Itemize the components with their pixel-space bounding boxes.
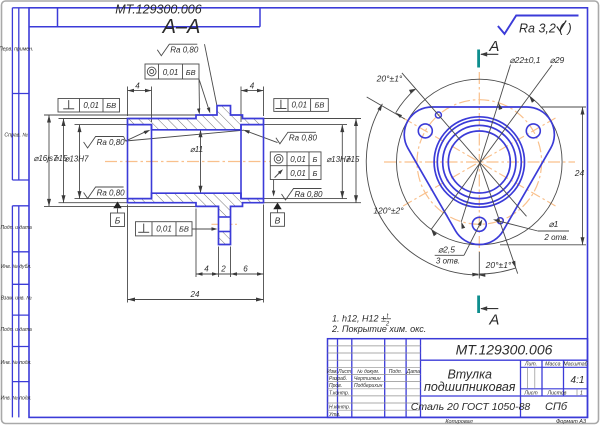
svg-text:А–А: А–А <box>162 16 201 38</box>
svg-text:⌀1: ⌀1 <box>549 219 559 229</box>
svg-text:Н.контр.: Н.контр. <box>329 405 350 411</box>
datum B left <box>111 202 125 227</box>
svg-text:МТ.129300.006: МТ.129300.006 <box>115 2 201 16</box>
technical notes <box>331 314 426 334</box>
svg-text:0,01: 0,01 <box>83 101 99 110</box>
title block row lines <box>328 346 578 410</box>
tolerance frame stack concentricity/runout 0,01 B right with leader <box>270 152 321 197</box>
general roughness Ra 3,2 <box>498 16 579 36</box>
right view centerline vertical <box>478 72 480 252</box>
svg-text:24: 24 <box>190 290 200 299</box>
svg-text:Справ. №: Справ. № <box>4 133 28 139</box>
svg-text:Пров.: Пров. <box>329 383 342 389</box>
datum V right <box>271 203 285 227</box>
svg-text:4: 4 <box>204 264 209 273</box>
tolerance frame concentricity 0,01 BV top-middle with leaders <box>145 64 210 115</box>
roughness Ra 0,80 top-middle with leader to boss <box>157 44 217 105</box>
circle d11 <box>448 131 510 193</box>
dimension 24 right view <box>500 107 586 245</box>
svg-text:Взам. инв. №: Взам. инв. № <box>1 296 33 302</box>
section body top wall hatched <box>128 106 264 130</box>
svg-text:0,01: 0,01 <box>292 101 308 110</box>
svg-text:⌀29: ⌀29 <box>550 55 565 65</box>
roughness Ra 0,80 left bottom <box>84 187 126 199</box>
left margin column top group <box>0 8 33 180</box>
svg-text:Ra 0,80: Ra 0,80 <box>97 138 126 147</box>
svg-text:Б: Б <box>313 155 318 164</box>
circle d15 <box>437 120 521 204</box>
svg-text:А: А <box>488 312 499 329</box>
svg-text:⌀22±0,1: ⌀22±0,1 <box>509 55 540 65</box>
hole axis line through small hole B <box>402 73 527 216</box>
dimensions 4 2 6 bottom <box>196 205 264 303</box>
svg-text:Ra 0,80: Ra 0,80 <box>170 46 199 55</box>
svg-text:СПб: СПб <box>545 401 568 413</box>
section cut mark A bottom <box>479 296 500 329</box>
small holes d1 <box>497 218 503 224</box>
svg-text:Ra 0,80: Ra 0,80 <box>294 190 323 199</box>
svg-text:Масштаб: Масштаб <box>563 362 588 368</box>
lobe holes d2,5 <box>472 217 486 231</box>
tolerance frame perpendicularity 0,01 BV top-right <box>274 99 329 112</box>
svg-text:Формат А3: Формат А3 <box>556 419 587 425</box>
svg-text:БВ: БВ <box>314 101 324 110</box>
svg-text:Лист: Лист <box>337 369 351 375</box>
tolerance frame perpendicularity 0,01 BV bottom with leader to lug <box>136 222 218 236</box>
svg-text:6: 6 <box>243 264 248 273</box>
svg-text:⌀2,5: ⌀2,5 <box>438 244 455 254</box>
svg-text:№ докум.: № докум. <box>357 369 379 375</box>
svg-text:1: 1 <box>580 390 583 396</box>
dimension d11 <box>190 130 203 193</box>
dimension 4 top-left <box>128 81 152 122</box>
svg-text:Листов: Листов <box>547 390 567 396</box>
svg-text:Изм.: Изм. <box>327 369 338 375</box>
bore step faces <box>128 125 264 199</box>
svg-text:Т.контр.: Т.контр. <box>329 390 349 396</box>
svg-text:А: А <box>488 38 499 55</box>
dimension d16js7 <box>34 115 58 206</box>
svg-text:Подп. и дата: Подп. и дата <box>1 327 33 333</box>
section body bottom wall hatched <box>128 193 264 244</box>
svg-text:Б: Б <box>313 169 318 178</box>
svg-text:Ra 0,80: Ra 0,80 <box>97 188 126 197</box>
svg-text:подшипниковая: подшипниковая <box>424 380 516 394</box>
svg-text:⌀13Н7: ⌀13Н7 <box>65 155 89 164</box>
svg-text:Разраб.: Разраб. <box>329 376 347 382</box>
dimension d13H7 right <box>326 125 350 199</box>
left margin column bottom group <box>1 206 33 418</box>
svg-text:4: 4 <box>250 81 255 90</box>
footer labels <box>445 419 587 425</box>
svg-text:4: 4 <box>135 81 140 90</box>
circle d13H7 <box>443 125 516 198</box>
centerline lobe hole <box>212 223 238 225</box>
svg-text:2. Покрытие хим. окс.: 2. Покрытие хим. окс. <box>331 324 426 334</box>
svg-text:Инв. № дубл.: Инв. № дубл. <box>1 264 32 270</box>
svg-text:20°±1°: 20°±1° <box>376 73 403 83</box>
svg-text:120°±2°: 120°±2° <box>373 206 404 216</box>
svg-text:Ra 0,80: Ra 0,80 <box>289 134 318 143</box>
svg-text:Подберихин: Подберихин <box>354 383 383 389</box>
hole axis line through small hole A <box>479 162 517 274</box>
svg-text:Б: Б <box>115 216 121 226</box>
lobe axis black extension upper-left <box>367 97 405 119</box>
leader d2,5 3 holes <box>435 219 483 265</box>
svg-text:Сталь 20 ГОСТ 1050-88: Сталь 20 ГОСТ 1050-88 <box>411 401 531 413</box>
svg-text:Лит.: Лит. <box>524 362 537 368</box>
svg-text:24: 24 <box>574 168 585 178</box>
flange trefoil outline <box>404 107 554 245</box>
svg-text:Инв. № подл.: Инв. № подл. <box>1 360 32 366</box>
svg-text:4:1: 4:1 <box>571 375 585 386</box>
title block texts <box>327 342 589 418</box>
extension lines left diameters <box>44 115 196 206</box>
svg-text:2 отв.: 2 отв. <box>543 233 568 242</box>
svg-text:0,01: 0,01 <box>290 155 306 164</box>
title block <box>328 339 588 418</box>
right view lobe axis 210-30 <box>403 118 555 206</box>
arc dimension 20 deg bottom <box>472 260 516 277</box>
circle d16js7 <box>434 117 524 207</box>
svg-text:Подп.: Подп. <box>389 369 402 375</box>
vertical reference below view <box>478 252 480 279</box>
svg-text:Лист: Лист <box>523 390 538 396</box>
svg-text:3 отв.: 3 отв. <box>436 257 460 266</box>
dimension d15 right <box>346 119 360 203</box>
centerline main axis <box>105 161 292 163</box>
svg-text:0,01: 0,01 <box>290 169 306 178</box>
svg-text:1. h12, Н12 ±: 1. h12, Н12 ± <box>332 314 386 324</box>
svg-text:Копировал: Копировал <box>445 419 472 425</box>
svg-text:МТ.129300.006: МТ.129300.006 <box>456 342 553 358</box>
roughness Ra 0,80 right top with leader <box>243 130 317 144</box>
svg-text:Чертилкин: Чертилкин <box>354 376 381 382</box>
svg-text:БВ: БВ <box>106 101 116 110</box>
dimension 4 top-right <box>241 81 264 122</box>
leader d22 with arrows on bolt circle <box>461 55 540 229</box>
svg-text:Инв. № подл.: Инв. № подл. <box>1 396 32 402</box>
arc dimension 120 deg <box>366 104 485 277</box>
right view lobe axis 150-330 <box>403 118 555 206</box>
svg-text:Дата: Дата <box>406 369 420 375</box>
svg-text:0,01: 0,01 <box>163 68 179 77</box>
section cut mark A top <box>479 38 500 68</box>
outer circle d29 <box>397 79 563 245</box>
right view centerline horizontal <box>384 161 575 163</box>
svg-text:Перв. примен.: Перв. примен. <box>0 47 33 53</box>
leader d1 2 holes <box>493 219 569 242</box>
svg-text:В: В <box>275 215 281 225</box>
svg-text:БВ: БВ <box>186 68 196 77</box>
svg-text:Подп. и дата: Подп. и дата <box>1 225 33 231</box>
svg-text:⌀11: ⌀11 <box>190 145 203 154</box>
top designation box <box>29 2 260 26</box>
svg-text:⌀15: ⌀15 <box>346 155 360 164</box>
tolerance frame perpendicularity 0,01 BV top-left <box>58 99 120 113</box>
dimension d13H7 left <box>65 125 89 199</box>
svg-text:Утв.: Утв. <box>329 412 340 418</box>
svg-text:2: 2 <box>220 264 226 273</box>
svg-text:20°±1°: 20°±1° <box>485 260 512 270</box>
roughness Ra 0,80 right bottom <box>282 189 324 201</box>
leader d29 with arrows on outer circle <box>431 55 564 236</box>
dimension 24 bottom <box>128 205 264 303</box>
svg-text:БВ: БВ <box>179 225 189 234</box>
svg-text:Масса: Масса <box>545 362 560 368</box>
arc dimension 20 deg top-left <box>376 73 416 118</box>
extension lines right diameters <box>264 119 362 203</box>
dimension d15 left <box>54 119 68 203</box>
svg-text:0,01: 0,01 <box>156 225 172 234</box>
bolt circle d22 centerline <box>417 100 542 225</box>
lug cross-hole <box>219 217 231 232</box>
